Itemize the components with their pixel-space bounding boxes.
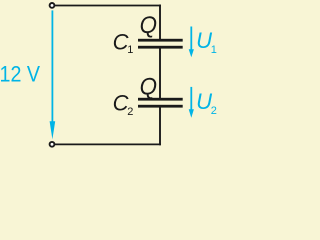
- label U2: [196, 89, 217, 117]
- svg-text:C: C: [113, 90, 129, 115]
- label C2: [113, 90, 134, 118]
- svg-text:C: C: [113, 30, 129, 55]
- capacitor C1 plates: [138, 39, 183, 42]
- terminal node bottom: [50, 142, 55, 147]
- svg-text:Q: Q: [140, 12, 157, 39]
- svg-text:1: 1: [211, 44, 217, 56]
- svg-text:U: U: [196, 89, 212, 114]
- wire right lower: C2 bottom plate down to bottom-right corner: [159, 107, 161, 145]
- label U1: [196, 28, 217, 56]
- svg-text:12 V: 12 V: [0, 62, 40, 87]
- svg-text:U: U: [196, 28, 212, 53]
- wire bottom: bottom-right corner to - terminal: [52, 143, 161, 145]
- capacitor C2 plates: [138, 98, 183, 101]
- svg-text:1: 1: [127, 44, 133, 56]
- wire between C1 and C2: [159, 48, 161, 99]
- wire top: from + terminal to top-right corner: [52, 5, 161, 7]
- voltage arrow U1: [189, 27, 194, 58]
- label C1: [113, 30, 134, 57]
- terminal node top: [50, 3, 55, 8]
- voltage arrow U2: [189, 87, 194, 118]
- svg-text:2: 2: [211, 105, 217, 117]
- svg-text:Q: Q: [140, 74, 157, 101]
- wire right upper: corner down to C1 top plate: [159, 5, 161, 40]
- svg-text:2: 2: [127, 106, 133, 118]
- voltage arrow 12 V (source): [50, 10, 56, 139]
